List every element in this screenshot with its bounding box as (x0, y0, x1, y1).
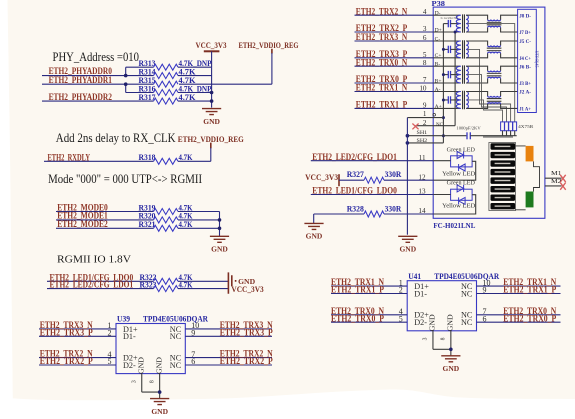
wire pin 9 to transformer TA (433, 107, 460, 109)
wire / net label ETH2_TRX2_N (right) (185, 350, 273, 360)
svg-text:GND: GND (155, 357, 164, 374)
junction MODE1 (218, 218, 222, 222)
svg-text:M2: M2 (551, 178, 562, 185)
wire / net label ETH2_TRX0_P (331, 314, 407, 324)
svg-text:SH1: SH1 (417, 130, 428, 136)
svg-text:ETH2_TRX3_N: ETH2_TRX3_N (356, 33, 408, 43)
svg-text:4.7K: 4.7K (179, 152, 193, 162)
svg-text:D1-: D1- (414, 289, 427, 298)
transformer TA core (463, 91, 465, 110)
wire choke A to jack pin J1 A+ (501, 104, 518, 108)
svg-text:GND: GND (203, 117, 220, 126)
ground GND U41 (441, 356, 460, 373)
wire / net label ETH2_TRX1_P (right) (477, 286, 561, 296)
svg-text:14: 14 (418, 207, 426, 215)
capacitor 0.1u channel C (443, 46, 458, 53)
pin 1 (NC) (407, 110, 443, 118)
svg-text:ETH2_TRX1_P: ETH2_TRX1_P (331, 286, 384, 296)
net label ETH2_TRX3_P (pin 5 C+) (355, 50, 434, 60)
ground GND strap bus (202, 109, 221, 126)
wire center tap B to termination (468, 75, 507, 122)
transformer TB primary winding (456, 66, 461, 83)
svg-text:ETH2_TRX2_P: ETH2_TRX2_P (220, 357, 273, 367)
wire / net label ETH2_TRX0_N (331, 307, 407, 317)
pin 3 GND (132, 357, 146, 392)
transformer TD core (463, 14, 465, 32)
svg-text:6: 6 (423, 34, 427, 42)
svg-text:ETH2_TRX0_P: ETH2_TRX0_P (503, 314, 556, 324)
net label ETH2_TRX2_N (pin 4 D-) (355, 7, 434, 17)
svg-text:D2-: D2- (123, 361, 136, 370)
resistor R319 (139, 202, 220, 214)
net label ETH2_PHYADDR1 (42, 76, 154, 86)
choke C top winding (488, 45, 501, 46)
svg-text:R328: R328 (347, 203, 365, 213)
pin M1 (no connect) (545, 170, 566, 182)
wire secondary bottom to choke D (466, 28, 487, 32)
ESD chip U41 TPD4E05U06DQAR (407, 272, 499, 331)
wire pin 4 to transformer TD (433, 14, 460, 16)
junction R317 (210, 99, 214, 103)
resistor R328 (314, 203, 434, 217)
pin 8 GND (150, 357, 164, 399)
svg-text:12: 12 (418, 173, 426, 181)
pin 3 GND (423, 314, 437, 349)
resistor R318 (139, 152, 211, 164)
wire gnd join (433, 348, 451, 350)
net label ETH2_MODE2 (56, 220, 154, 230)
svg-text:4.7K: 4.7K (179, 92, 196, 102)
resistor R316 (139, 83, 213, 95)
svg-text:J3 B+: J3 B+ (519, 81, 531, 87)
svg-text:ETH2_LED1/CFG_LDO0: ETH2_LED1/CFG_LDO0 (312, 187, 397, 197)
svg-text:R327: R327 (347, 169, 365, 179)
pin SH1 (407, 130, 466, 136)
svg-text:ETH2_TRX0_N: ETH2_TRX0_N (356, 58, 408, 68)
pin 9 NC (170, 329, 196, 342)
wire left strap bus bottom (126, 84, 154, 92)
transformer TC secondary winding (466, 41, 468, 58)
svg-text:8: 8 (441, 337, 447, 340)
junction rail A (442, 98, 445, 101)
wire / net label ETH2_TRX1_P (331, 286, 407, 296)
svg-text:PHY_Address =010: PHY_Address =010 (53, 50, 140, 64)
svg-text:J7 D+: J7 D+ (519, 30, 531, 36)
wire gnd join (142, 391, 160, 393)
ground GND sideways (R322) (228, 272, 255, 293)
wire / net label ETH2_TRX1_N (331, 278, 407, 288)
choke A top winding (488, 96, 501, 97)
svg-text:R321: R321 (139, 219, 156, 229)
svg-text:ETH2_TRX2_P: ETH2_TRX2_P (40, 357, 93, 367)
svg-text:GND: GND (428, 314, 437, 331)
transformer TD primary winding (456, 15, 461, 32)
power VCC_3V3 (R323) (231, 284, 264, 294)
svg-text:Mode "000" = 000 UTP<-> RGMII: Mode "000" = 000 UTP<-> RGMII (48, 172, 202, 186)
pin 6 NC (461, 314, 487, 327)
wire center tap D to termination (468, 24, 515, 122)
wire center tap C to termination (468, 49, 511, 122)
capacitor 1000pF/2KV (456, 126, 516, 140)
junction rail SH1 (442, 134, 445, 137)
svg-text:J6 B-: J6 B- (519, 64, 531, 70)
wire choke C to jack pin J4 C+ (501, 53, 518, 57)
svg-text:ETH2_LED2/CFG_LDO1: ETH2_LED2/CFG_LDO1 (50, 281, 134, 291)
resistor R317 (139, 92, 212, 104)
net label ETH2_PHYADDR2 (42, 93, 154, 103)
transformer TC core (463, 40, 465, 58)
choke B bottom winding (488, 77, 501, 78)
svg-text:FC-H021LNL: FC-H021LNL (433, 221, 475, 230)
wire secondary top to choke D (466, 15, 487, 19)
net label ETH2_LED2/CFG_LDO1 (47, 281, 154, 291)
svg-text:3: 3 (423, 337, 429, 340)
wire left strap bus top (126, 67, 154, 75)
svg-text:5: 5 (423, 51, 427, 59)
choke B core (487, 73, 502, 76)
svg-text:ETH2_TRX0_P: ETH2_TRX0_P (331, 314, 384, 324)
svg-text:P38: P38 (432, 0, 446, 8)
pin 9 NC (461, 286, 487, 299)
resistor R314 (139, 66, 212, 78)
pin 1 D1+ (399, 278, 430, 291)
resistor R321 (139, 219, 220, 231)
svg-text:Add 2ns delay to RX_CLK: Add 2ns delay to RX_CLK (56, 131, 176, 145)
connector P38 outer box (432, 0, 545, 230)
resistor R313 (139, 58, 213, 70)
wire / net label ETH2_TRX3_P (39, 328, 116, 338)
capacitor 0.1u channel A (443, 96, 458, 103)
ground GND R328 (304, 223, 323, 240)
wire / net label ETH2_TRX3_P (right) (185, 328, 273, 338)
capacitor 0.1u channel B (443, 71, 458, 78)
pin 10 NC (461, 278, 491, 291)
power ETH2_VDDIO_REG (RXDLY) (178, 134, 244, 161)
wire / net label ETH2_TRX1_N (right) (477, 278, 561, 288)
net label ETH2_TRX1_P (pin 9 A+) (355, 101, 434, 111)
svg-text:8: 8 (423, 59, 427, 67)
wire choke A to jack pin J2 A- (501, 92, 518, 96)
svg-text:J4 C+: J4 C+ (519, 56, 531, 62)
wire secondary top to choke A (466, 92, 487, 96)
net label ETH2_TRX2_P (pin 3 D+) (355, 24, 434, 34)
wire choke D to jack pin J8 D- (501, 15, 518, 19)
junction MODE2 (218, 227, 222, 231)
power VCC_3V3 (196, 40, 227, 67)
transformer TB core (463, 65, 465, 83)
ground GND U39 (150, 399, 169, 416)
wire shield bus to ground (406, 118, 408, 235)
wire center tap A to termination (468, 100, 503, 122)
junction on PHYADDR1 (124, 82, 128, 86)
LED pair 2 (433, 185, 476, 214)
svg-text:GND: GND (306, 232, 323, 241)
net label ETH2_MODE1 (56, 212, 154, 222)
svg-text:4: 4 (423, 8, 427, 16)
jack pin block J1-J8 (518, 9, 540, 112)
svg-text:11: 11 (419, 154, 426, 162)
net label ETH2_LED1/CFG_LDO0 (47, 273, 154, 283)
power ETH2_VDDIO_REG (239, 40, 299, 84)
svg-text:NC: NC (461, 289, 473, 298)
svg-text:VCC_3V3: VCC_3V3 (196, 40, 227, 50)
junction rail B (442, 73, 445, 76)
svg-text:ETH2_TRX2_N: ETH2_TRX2_N (356, 7, 408, 17)
svg-text:Green LED: Green LED (447, 147, 475, 153)
junction SH1 (406, 134, 410, 138)
ESD chip U39 TPD4E05U06DQAR (116, 315, 208, 374)
choke D bottom winding (488, 26, 501, 27)
net label ETH2_TRX0_P (pin 7 B+) (355, 75, 434, 85)
net label ETH2_LED1/CFG_LDO0 (pin 13) (311, 187, 433, 197)
svg-text:U39: U39 (117, 315, 130, 324)
svg-text:UTP Rj45: UTP Rj45 (535, 51, 540, 68)
ground GND shield (398, 236, 417, 253)
svg-text:J2 A-: J2 A- (519, 90, 531, 96)
wire R328 to ground (313, 214, 315, 223)
svg-text:RGMII IO 1.8V: RGMII IO 1.8V (57, 253, 131, 265)
svg-text:7: 7 (423, 76, 427, 84)
svg-text:VCC_3V3: VCC_3V3 (305, 172, 339, 182)
wire / net label ETH2_TRX2_P (39, 357, 116, 367)
wire choke B to jack pin J6 B- (501, 66, 518, 70)
net label ETH2_MODE0 (56, 203, 154, 213)
RJ45 jack drawing (483, 137, 540, 211)
svg-text:D1-: D1- (123, 332, 136, 341)
resistor R315 (139, 75, 196, 87)
svg-text:J8 D-: J8 D- (519, 13, 531, 19)
svg-text:1000pF/2KV: 1000pF/2KV (456, 126, 480, 131)
resistor R320 (139, 211, 220, 223)
wire MODE bus (219, 212, 221, 237)
svg-text:13: 13 (418, 188, 426, 196)
wire pin 7 to transformer TB (433, 82, 460, 84)
svg-text:Yellow LED: Yellow LED (442, 203, 475, 209)
pin 10 NC (170, 321, 200, 334)
transformer TA primary winding (456, 92, 461, 109)
wire pin 8 to transformer TB (433, 65, 460, 67)
svg-text:4.7K: 4.7K (179, 280, 193, 290)
svg-text:GND: GND (151, 407, 168, 416)
pin 4 D2+ (108, 350, 139, 363)
pin M2 (no connect) (545, 178, 566, 190)
wire shield rail pin2 (454, 32, 456, 126)
LED pair 1 (433, 152, 476, 181)
net label ETH2_TRX0_N (pin 8 B-) (355, 58, 434, 68)
svg-text:GND: GND (443, 364, 460, 373)
svg-text:0.1u/2KvX4: 0.1u/2KvX4 (441, 16, 459, 20)
svg-text:GND: GND (446, 314, 455, 331)
resistor R322 (140, 272, 229, 284)
svg-text:VCC_3V3: VCC_3V3 (231, 284, 264, 294)
net label ETH2_TRX3_N (pin 6 C-) (355, 33, 434, 43)
choke D top winding (488, 20, 501, 21)
capacitor 0.1u channel D (443, 20, 458, 27)
resistor array 4X75R (501, 122, 535, 136)
net label ETH2_TRX1_N (pin 10 A-) (355, 84, 434, 94)
svg-text:8: 8 (150, 380, 156, 383)
svg-text:ETH2_TRX1_P: ETH2_TRX1_P (503, 286, 556, 296)
svg-text:4X75R: 4X75R (518, 124, 534, 129)
wire pin 10 to transformer TA (433, 91, 460, 93)
svg-text:NC: NC (170, 332, 182, 341)
pin 7 NC (170, 350, 196, 363)
junction rail pin1 (442, 116, 445, 119)
svg-text:4.7K: 4.7K (179, 219, 193, 229)
wire secondary bottom to choke A (466, 104, 487, 108)
junction gnd (449, 348, 453, 352)
svg-text:GND: GND (211, 245, 228, 254)
svg-text:J1 A+: J1 A+ (519, 107, 531, 113)
wire VDDIO to R315 (179, 83, 272, 85)
svg-text:330R: 330R (385, 169, 402, 179)
choke C core (487, 48, 502, 51)
svg-text:GND: GND (399, 245, 416, 254)
junction SH2 (406, 141, 410, 145)
junction R316 (210, 91, 214, 95)
transformer TA secondary winding (466, 92, 468, 109)
wire secondary bottom to choke B (466, 79, 487, 83)
pin 8 GND (441, 314, 455, 356)
choke B top winding (488, 71, 501, 72)
svg-text:NC: NC (436, 123, 443, 128)
svg-text:3: 3 (423, 25, 427, 33)
pin SH2 (407, 138, 443, 144)
svg-text:ETH2_TRX3_P: ETH2_TRX3_P (40, 328, 93, 338)
transformer TB secondary winding (466, 66, 468, 83)
power VCC_3V3 (R327) (305, 172, 339, 186)
wire right bus to GND (211, 67, 213, 107)
pin 6 NC (170, 357, 196, 370)
svg-text:ETH2_LED2/CFG_LDO1: ETH2_LED2/CFG_LDO1 (312, 153, 397, 163)
pin 5 D2- (108, 357, 137, 370)
transformer TC primary winding (456, 41, 461, 58)
wire pin 5 to transformer TC (433, 57, 460, 59)
wire pin 6 to transformer TC (433, 40, 460, 42)
svg-text:ETH2_VDDIO_REG: ETH2_VDDIO_REG (239, 40, 299, 50)
choke D core (487, 22, 502, 25)
svg-text:M1: M1 (551, 170, 562, 177)
svg-text:3: 3 (132, 380, 138, 383)
pin 7 NC (461, 307, 487, 320)
svg-text:NC: NC (170, 361, 182, 370)
resistor R327 (339, 169, 433, 183)
pin 5 D2- (399, 314, 428, 327)
wire / net label ETH2_TRX0_N (right) (477, 307, 561, 317)
wire secondary top to choke B (466, 66, 487, 70)
wire pin 3 to transformer TD (433, 31, 460, 33)
pin 4 D2+ (399, 307, 430, 320)
svg-text:GND: GND (137, 357, 146, 374)
wire choke D to jack pin J7 D+ (501, 28, 518, 32)
wire / net label ETH2_TRX0_P (right) (477, 314, 561, 324)
net label ETH2_LED2/CFG_LDO1 (pin 11) (311, 153, 433, 163)
svg-text:NC: NC (461, 318, 473, 327)
junction gnd (158, 390, 162, 394)
wire / net label ETH2_TRX3_N (right) (185, 321, 273, 331)
choke A bottom winding (488, 103, 501, 104)
wire / net label ETH2_TRX3_N (39, 321, 116, 331)
svg-text:1: 1 (423, 110, 427, 118)
junction shield rail D+ (454, 31, 457, 34)
junction rail C (442, 48, 445, 51)
svg-text:9: 9 (423, 101, 427, 109)
net label ETH2_RXDLY (44, 153, 154, 163)
svg-text:10: 10 (419, 85, 427, 93)
svg-text:D2-: D2- (414, 318, 427, 327)
ground GND mode bus (210, 236, 229, 253)
choke A core (487, 99, 502, 102)
wire choke C to jack pin J5 C- (501, 41, 518, 45)
net label ETH2_PHYADDR0 (42, 67, 154, 77)
wire / net label ETH2_TRX2_N (39, 350, 116, 360)
junction on PHYADDR0 (124, 74, 128, 78)
svg-text:ETH2_TRX1_N: ETH2_TRX1_N (356, 84, 408, 94)
svg-text:330R: 330R (385, 203, 402, 213)
resistor R323 (140, 280, 229, 292)
svg-text:ETH2_TRX1_P: ETH2_TRX1_P (356, 101, 408, 111)
pin 2 NC with no-ERC cross (412, 119, 455, 130)
svg-text:Yellow LED: Yellow LED (442, 171, 475, 177)
wire cap common rail (442, 24, 444, 143)
svg-text:J5 C-: J5 C- (519, 39, 531, 45)
pin 2 D1- (399, 286, 428, 299)
svg-text:Green LED: Green LED (447, 181, 475, 187)
choke C bottom winding (488, 52, 501, 53)
wire secondary top to choke C (466, 41, 487, 45)
wire secondary bottom to choke C (466, 53, 487, 57)
wire choke B to jack pin J3 B+ (501, 79, 518, 83)
svg-text:ETH2_TRX3_P: ETH2_TRX3_P (220, 328, 273, 338)
wire / net label ETH2_TRX2_P (right) (185, 357, 273, 367)
transformer TD secondary winding (466, 15, 468, 32)
pin 1 D1+ (108, 321, 139, 334)
pin 2 D1- (108, 329, 137, 342)
svg-text:U41: U41 (408, 272, 421, 281)
